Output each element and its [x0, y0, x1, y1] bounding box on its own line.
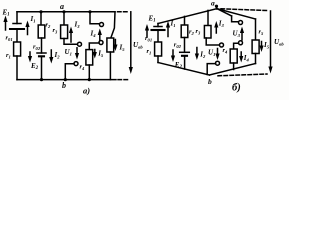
svg-text:а): а) [83, 86, 90, 96]
svg-text:r01: r01 [6, 35, 13, 42]
svg-text:r02: r02 [174, 42, 182, 49]
svg-text:r1: r1 [6, 52, 11, 59]
dashed port top [118, 11, 130, 13]
node A junction dot 3 [88, 10, 91, 13]
svg-text:b: b [208, 77, 212, 86]
wire r5 to bottom [109, 52, 111, 80]
svg-text:r4: r4 [80, 64, 86, 71]
wire r4 to bottom [88, 65, 90, 80]
svg-text:Uab: Uab [133, 41, 143, 49]
I5b2 current arrow [261, 42, 263, 49]
resistor r3b [204, 26, 211, 39]
svg-text:I5: I5 [97, 50, 104, 58]
E1 EMF arrow [5, 19, 7, 30]
svg-text:I4: I4 [243, 54, 250, 62]
U1 voltage arrow [76, 48, 78, 56]
battery E1b [154, 26, 162, 28]
wire top slant left [158, 9, 217, 24]
svg-text:I4: I4 [90, 30, 97, 38]
wire lower terminal to b [65, 64, 74, 80]
svg-text:I2: I2 [54, 51, 61, 59]
terminal upper right [100, 23, 104, 27]
wire r2b to E2b [184, 38, 186, 53]
I4 arrow between terminals [99, 32, 101, 41]
wire r3 to switch [64, 39, 78, 45]
svg-text:U3: U3 [233, 30, 241, 38]
svg-text:I1: I1 [30, 15, 36, 23]
resistor r1 [14, 42, 21, 56]
svg-text:r4: r4 [223, 47, 229, 54]
E1b EMF arrow [146, 28, 148, 38]
wire E1b to r1b [157, 30, 159, 42]
svg-text:r2: r2 [46, 22, 52, 29]
I3b current arrow [215, 25, 217, 34]
wire branch1 top [16, 12, 18, 24]
battery E2 [37, 52, 46, 54]
dashed port bottom [118, 79, 130, 81]
svg-text:Е1: Е1 [2, 9, 10, 18]
resistor r4b [230, 49, 237, 63]
wire branch5 top [111, 12, 115, 38]
wire branch4b jog [232, 16, 239, 22]
I1 current arrow [27, 24, 29, 35]
wire branch4 top jog [90, 12, 99, 24]
switch lower terminal left [74, 62, 78, 66]
terminal b3 upper [220, 43, 224, 47]
switch upper terminal left [78, 42, 82, 46]
node a2 apex dot [215, 5, 218, 8]
svg-text:I2: I2 [199, 51, 206, 59]
wire battery to r1 [16, 29, 18, 42]
svg-text:r02: r02 [33, 44, 41, 51]
svg-text:Е1: Е1 [148, 15, 156, 24]
wire b2 branch1 top [157, 24, 159, 27]
svg-text:I1: I1 [170, 20, 176, 28]
svg-text:I5: I5 [119, 44, 126, 52]
svg-text:I3: I3 [74, 21, 81, 29]
node b dot [64, 78, 67, 81]
svg-text:a: a [211, 0, 215, 8]
node A junction dot 1 [39, 10, 42, 13]
resistor r1b [155, 42, 162, 56]
svg-text:r1: r1 [147, 48, 152, 55]
E2 EMF arrow [29, 52, 31, 59]
terminal lower right [99, 41, 103, 45]
svg-text:Е2: Е2 [30, 62, 39, 71]
resistor r5 [107, 38, 114, 52]
resistor r2b [181, 25, 188, 38]
wire r2 to E2 [41, 38, 43, 53]
svg-text:r5: r5 [259, 29, 265, 36]
resistor r3 [61, 25, 68, 39]
wire top bus a [17, 11, 115, 13]
terminal b4 upper [239, 21, 243, 25]
node a dot [62, 10, 65, 13]
battery E1 [13, 23, 21, 25]
resistor r4 [86, 50, 93, 65]
svg-text:Uab: Uab [274, 38, 284, 46]
battery E2b [180, 51, 190, 53]
svg-text:r2: r2 [189, 29, 195, 36]
wire r4b to bottom slant [233, 63, 235, 70]
node b2 apex [158, 63, 210, 76]
node junction dot bottom r4 [88, 78, 91, 81]
wire r1b to bottom corner [157, 56, 159, 63]
resistor r5b [252, 40, 259, 54]
terminal b3 lower [216, 61, 220, 65]
I1b current arrow [167, 25, 169, 37]
wire lower terminal to r4 [89, 43, 99, 50]
svg-text:U1: U1 [65, 48, 72, 56]
svg-text:b: b [62, 81, 66, 90]
wire b3 lower to apex [207, 64, 215, 75]
node junction dot bottom E2 [40, 78, 43, 81]
Uab arrow [130, 12, 132, 70]
svg-text:I5: I5 [263, 41, 270, 49]
resistor r2 [38, 25, 45, 38]
svg-text:I3: I3 [218, 20, 225, 28]
wire r5b to bottom slant [255, 54, 257, 64]
I2b current arrow [196, 48, 198, 57]
I3 current arrow [70, 30, 72, 42]
E2b EMF arrow [172, 50, 174, 59]
terminal b4 lower [239, 41, 243, 45]
svg-text:б): б) [232, 83, 241, 94]
svg-text:r01: r01 [145, 35, 152, 42]
wire r1 to bottom [16, 56, 18, 80]
wire r3b to terminal [206, 38, 219, 45]
wire top tap r2 [184, 16, 186, 25]
U5b arrow [217, 49, 219, 57]
wire top tap r3 [207, 10, 209, 25]
I2 current arrow [50, 50, 52, 60]
wire E2b to bottom slant [184, 56, 186, 69]
wire branch3 top [63, 12, 65, 25]
I5 current arrow [94, 50, 96, 56]
dashed port bottom b [218, 74, 267, 76]
wire bottom bus b [17, 79, 116, 81]
svg-text:a: a [60, 2, 64, 11]
I4b current arrow [240, 52, 242, 59]
Uab2 arrow [270, 11, 272, 70]
wire E2 to bottom [41, 56, 43, 79]
svg-text:r3: r3 [196, 28, 202, 35]
svg-text:r3: r3 [53, 27, 59, 34]
wire branch5b top [255, 19, 257, 40]
dashed port top b [221, 9, 267, 11]
wire b4 lower to r4b [234, 43, 239, 49]
svg-text:U1: U1 [208, 49, 215, 57]
I5b current arrow [114, 40, 116, 48]
wire branch2 top [40, 12, 42, 25]
U3b arrow [241, 30, 243, 40]
wire top slant right to branch5 [217, 9, 256, 19]
wire top slant right to branch4 [217, 9, 232, 16]
wire bottom slant right [210, 64, 256, 76]
